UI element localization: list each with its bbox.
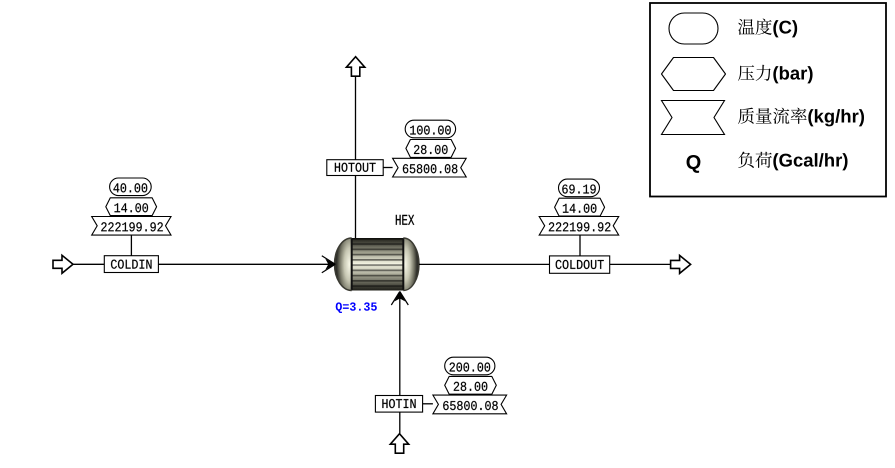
- label box HOTOUT: [327, 160, 383, 176]
- wire COLDIN right segment: [158, 263, 334, 265]
- COLDOUT mass flow flag 222199.92: [539, 217, 619, 236]
- label box COLDOUT: [550, 256, 610, 273]
- stream COLDIN feed arrow: [53, 255, 73, 273]
- wire HOTOUT vertical: [355, 76, 357, 239]
- stream COLDOUT product arrow: [671, 255, 691, 273]
- stream HOTOUT product arrow (up): [346, 57, 364, 76]
- wire COLDIN left segment: [73, 263, 104, 265]
- COLDIN temperature flag 40.00: [110, 178, 152, 196]
- HEX label: [396, 215, 414, 225]
- wire HOTOUT flag connector: [383, 167, 392, 169]
- legend Q symbol: [687, 155, 701, 173]
- label box HOTIN: [375, 396, 422, 413]
- HOTIN pressure flag 28.00: [445, 376, 497, 394]
- HOTIN temperature flag 200.00: [445, 357, 495, 375]
- legend box: [650, 3, 886, 197]
- arrowhead into exchanger (COLDIN): [325, 259, 335, 270]
- stream HOTIN feed arrow (up): [390, 434, 408, 454]
- arrowhead into exchanger (HOTIN): [394, 292, 405, 302]
- legend pressure symbol: [662, 58, 726, 91]
- COLDOUT temperature flag 69.19: [559, 179, 600, 197]
- legend mass-flow symbol: [662, 101, 725, 135]
- wire COLDOUT flag connector: [579, 235, 581, 256]
- COLDOUT pressure flag 14.00: [555, 198, 605, 216]
- legend label duty: [738, 152, 754, 168]
- wire HOTIN flag connector: [423, 403, 433, 405]
- HOTOUT pressure flag 28.00: [406, 140, 456, 158]
- COLDIN pressure flag 14.00: [106, 198, 157, 216]
- HOTIN mass flow flag 65800.08: [433, 395, 507, 414]
- legend label temperature: [738, 19, 755, 35]
- legend temperature symbol: [669, 13, 718, 44]
- COLDIN mass flow flag 222199.92: [92, 217, 171, 236]
- legend label pressure: [738, 65, 754, 81]
- wire COLDOUT right segment: [610, 263, 672, 265]
- wire COLDIN flag connector: [130, 235, 132, 256]
- HOTOUT mass flow flag 65800.08: [393, 158, 467, 177]
- label box COLDIN: [104, 256, 158, 273]
- wire COLDOUT left segment: [419, 263, 550, 265]
- wire HOTIN vertical: [399, 293, 401, 434]
- legend label mass flow: [738, 108, 754, 124]
- HOTOUT temperature flag 100.00: [405, 120, 455, 138]
- duty label Q=3.35: [336, 302, 377, 313]
